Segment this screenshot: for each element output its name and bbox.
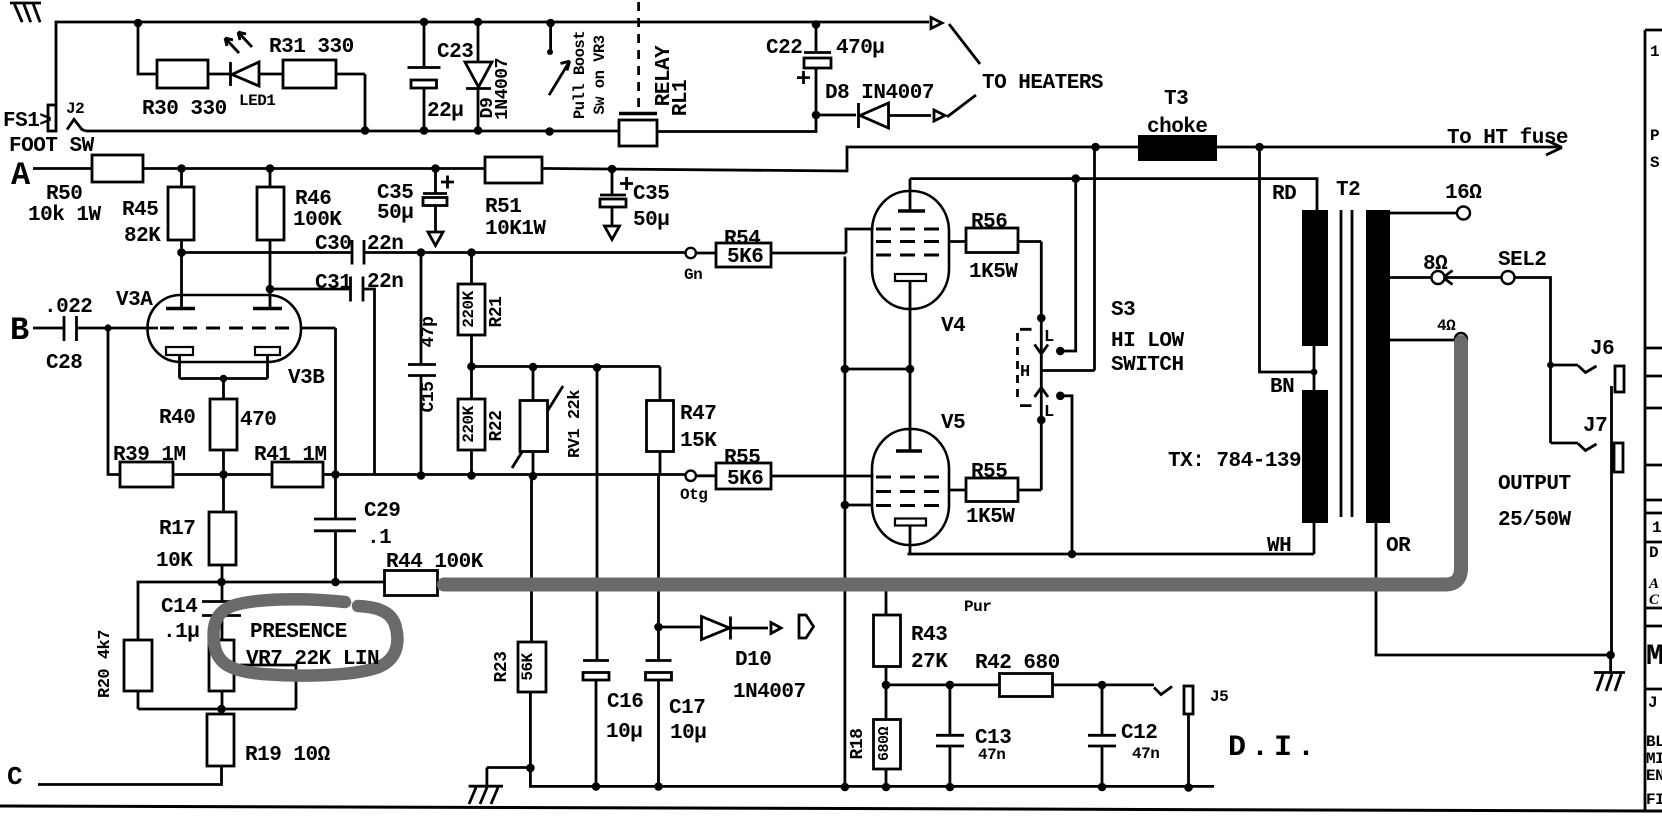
- svg-text:R31 330: R31 330: [269, 36, 354, 59]
- svg-text:C35: C35: [633, 183, 669, 206]
- svg-text:R22: R22: [487, 411, 507, 442]
- svg-text:T2: T2: [1336, 179, 1360, 202]
- svg-text:LED1: LED1: [239, 92, 275, 110]
- svg-text:S3: S3: [1111, 299, 1135, 322]
- svg-text:C28: C28: [46, 352, 82, 375]
- svg-text:C23: C23: [437, 41, 473, 64]
- svg-text:C16: C16: [607, 691, 643, 714]
- svg-text:D10: D10: [735, 649, 771, 672]
- svg-text:T3: T3: [1164, 88, 1188, 111]
- svg-text:FOOT SW: FOOT SW: [9, 135, 95, 158]
- svg-text:10µ: 10µ: [670, 722, 706, 745]
- svg-text:1K5W: 1K5W: [969, 261, 1018, 284]
- svg-text:R45: R45: [122, 199, 158, 222]
- svg-text:R43: R43: [911, 624, 947, 647]
- svg-text:220K: 220K: [460, 290, 478, 327]
- svg-text:J5: J5: [1210, 688, 1228, 706]
- svg-text:BN: BN: [1270, 376, 1294, 399]
- svg-text:C14: C14: [161, 596, 197, 619]
- svg-text:1: 1: [1650, 43, 1659, 61]
- svg-text:R30 330: R30 330: [142, 98, 227, 121]
- svg-text:47p: 47p: [419, 317, 439, 348]
- svg-text:10K: 10K: [156, 550, 193, 573]
- svg-text:R55: R55: [971, 461, 1007, 484]
- svg-text:Pur: Pur: [964, 598, 991, 616]
- svg-text:10k 1W: 10k 1W: [28, 204, 102, 227]
- svg-text:R20 4k7: R20 4k7: [96, 630, 115, 698]
- svg-text:TX: 784-139: TX: 784-139: [1168, 450, 1301, 473]
- svg-text:5K6: 5K6: [727, 468, 763, 491]
- svg-text:D8 IN4007: D8 IN4007: [825, 82, 934, 105]
- svg-text:220K: 220K: [460, 405, 478, 442]
- svg-text:C30: C30: [315, 233, 351, 256]
- svg-text:10µ: 10µ: [606, 721, 642, 744]
- svg-text:C15: C15: [419, 382, 439, 413]
- svg-text:V3A: V3A: [116, 289, 153, 312]
- svg-text:1K5W: 1K5W: [966, 506, 1015, 529]
- svg-text:82K: 82K: [124, 225, 161, 248]
- svg-text:B: B: [10, 312, 29, 349]
- svg-text:RD: RD: [1272, 183, 1296, 206]
- svg-text:Sw on VR3: Sw on VR3: [591, 35, 609, 114]
- svg-text:1N4007: 1N4007: [493, 58, 513, 120]
- svg-text:P: P: [1650, 127, 1659, 145]
- svg-text:R41 1M: R41 1M: [254, 444, 327, 467]
- svg-text:D.I.: D.I.: [1228, 731, 1320, 765]
- svg-text:.1µ: .1µ: [163, 621, 199, 644]
- svg-text:R44 100K: R44 100K: [386, 551, 484, 574]
- svg-text:1: 1: [1652, 519, 1661, 537]
- svg-text:C12: C12: [1121, 722, 1157, 745]
- svg-text:22n: 22n: [367, 271, 403, 294]
- svg-text:R46: R46: [295, 188, 331, 211]
- svg-text:OR: OR: [1386, 535, 1411, 558]
- svg-text:MI: MI: [1646, 750, 1662, 768]
- svg-text:R19 10Ω: R19 10Ω: [245, 744, 331, 767]
- svg-text:A: A: [11, 157, 31, 194]
- svg-text:Pull Boost: Pull Boost: [571, 31, 589, 119]
- svg-text:47n: 47n: [978, 746, 1005, 764]
- svg-text:22n: 22n: [367, 233, 403, 256]
- svg-text:J6: J6: [1590, 338, 1614, 361]
- svg-text:BL: BL: [1646, 733, 1662, 751]
- svg-text:50µ: 50µ: [633, 209, 669, 232]
- svg-text:R56: R56: [971, 211, 1007, 234]
- svg-text:TO HEATERS: TO HEATERS: [982, 72, 1103, 95]
- svg-text:M: M: [1646, 640, 1662, 674]
- svg-text:16Ω: 16Ω: [1445, 182, 1482, 205]
- svg-text:R42 680: R42 680: [975, 652, 1060, 675]
- svg-text:D: D: [1649, 544, 1658, 562]
- svg-text:R40: R40: [159, 407, 195, 430]
- svg-text:L: L: [1044, 328, 1054, 347]
- svg-text:10K1W: 10K1W: [485, 218, 546, 241]
- svg-text:FS1>: FS1>: [3, 110, 51, 133]
- svg-text:Gn: Gn: [684, 266, 702, 284]
- svg-text:4Ω: 4Ω: [1437, 317, 1456, 335]
- svg-text:PRESENCE: PRESENCE: [250, 621, 347, 644]
- svg-text:R23: R23: [492, 652, 512, 683]
- svg-text:C17: C17: [669, 697, 705, 720]
- svg-text:8Ω: 8Ω: [1423, 253, 1448, 276]
- svg-text:R51: R51: [485, 196, 521, 219]
- svg-text:47n: 47n: [1132, 745, 1159, 763]
- svg-text:R50: R50: [46, 183, 82, 206]
- svg-text:5K6: 5K6: [727, 246, 763, 269]
- svg-text:C: C: [7, 762, 23, 792]
- svg-text:L: L: [1044, 403, 1054, 422]
- svg-text:V4: V4: [941, 315, 965, 338]
- svg-text:100K: 100K: [293, 209, 342, 232]
- svg-text:SEL2: SEL2: [1498, 249, 1546, 272]
- svg-text:SWITCH: SWITCH: [1111, 354, 1184, 377]
- svg-text:R21: R21: [487, 296, 507, 328]
- svg-text:R18: R18: [848, 729, 868, 760]
- svg-text:R39 1M: R39 1M: [113, 444, 186, 467]
- svg-text:25/50W: 25/50W: [1498, 509, 1572, 532]
- svg-text:C29: C29: [364, 500, 400, 523]
- svg-text:FI: FI: [1646, 791, 1662, 809]
- svg-text:V3B: V3B: [288, 367, 325, 390]
- svg-text:EN: EN: [1646, 767, 1662, 785]
- svg-text:RV1 22k: RV1 22k: [566, 390, 585, 458]
- svg-text:To HT fuse: To HT fuse: [1447, 127, 1568, 150]
- svg-text:R47: R47: [680, 403, 716, 426]
- svg-text:15K: 15K: [680, 430, 717, 453]
- svg-text:V5: V5: [941, 412, 965, 435]
- svg-text:R55: R55: [724, 447, 760, 470]
- svg-text:VR7 22K LIN: VR7 22K LIN: [246, 648, 379, 671]
- svg-text:680Ω: 680Ω: [876, 727, 893, 762]
- svg-text:RL1: RL1: [670, 80, 693, 116]
- svg-text:J7: J7: [1583, 415, 1607, 438]
- svg-text:S: S: [1650, 154, 1660, 172]
- svg-text:WH: WH: [1267, 535, 1291, 558]
- svg-text:56K: 56K: [519, 652, 537, 680]
- svg-text:27K: 27K: [911, 651, 948, 674]
- svg-text:22µ: 22µ: [427, 100, 463, 123]
- svg-text:.022: .022: [44, 296, 92, 319]
- svg-text:H: H: [1020, 363, 1030, 382]
- svg-text:470: 470: [240, 409, 276, 432]
- svg-text:R17: R17: [159, 518, 195, 541]
- svg-text:470µ: 470µ: [836, 37, 884, 60]
- svg-text:C22: C22: [766, 37, 802, 60]
- svg-text:.1: .1: [367, 527, 391, 550]
- svg-text:C: C: [1649, 592, 1660, 608]
- svg-text:C31: C31: [315, 272, 351, 295]
- svg-text:OUTPUT: OUTPUT: [1498, 473, 1571, 496]
- svg-text:50µ: 50µ: [377, 202, 413, 225]
- svg-text:choke: choke: [1147, 116, 1208, 139]
- svg-text:Otg: Otg: [680, 486, 707, 504]
- svg-text:A: A: [1648, 576, 1659, 592]
- svg-text:J2: J2: [66, 100, 84, 118]
- svg-text:1N4007: 1N4007: [733, 681, 806, 704]
- svg-text:J: J: [1648, 694, 1657, 712]
- svg-text:HI LOW: HI LOW: [1111, 330, 1185, 353]
